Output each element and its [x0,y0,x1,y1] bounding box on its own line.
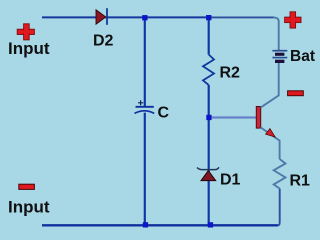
svg-text:D2: D2 [93,33,114,50]
minus terminal battery right [288,91,304,96]
node junction base wire / R2-D1 branch [206,115,211,120]
wire top rail left segment [42,16,209,18]
wire emitter of transistor [261,127,280,159]
node junction top rail / R2 branch [206,15,211,20]
wire top rail right segment [209,16,274,18]
plus terminal battery top-right [285,12,301,28]
node junction bottom rail / C branch [143,222,148,227]
svg-text:D1: D1 [220,171,241,188]
wire bottom-right vertical up to R1 [278,189,280,226]
svg-text:Input: Input [8,198,50,217]
wire bottom rail [42,224,278,226]
plus terminal top-left [17,24,34,40]
wire vertical C branch upper [144,17,146,106]
svg-text:R1: R1 [290,172,311,189]
wire vertical C branch lower [144,113,146,226]
resistor R2 [203,55,214,86]
capacitor C [135,100,155,113]
node junction top rail / C branch [142,15,147,20]
transistor Q1 base bar [256,107,260,129]
wire collector of transistor [261,63,279,108]
wire vertical R2/D1 branch lower [208,85,210,226]
wire vertical R2/D1 branch upper [208,17,210,55]
transistor Q1 emitter arrow [266,129,276,137]
wire top-right corner down to battery + [274,17,279,50]
svg-text:Input: Input [8,39,50,58]
battery Bat [272,51,287,63]
svg-text:C: C [158,105,170,122]
resistor R1 [274,159,286,189]
diode D2 [96,8,107,25]
diode D1 (zener) [197,167,219,180]
wire base of transistor [212,116,257,118]
minus terminal bottom-left [19,184,35,189]
svg-text:Bat: Bat [290,48,315,65]
svg-text:R2: R2 [220,65,241,82]
node junction bottom rail / D1 branch [208,222,213,227]
